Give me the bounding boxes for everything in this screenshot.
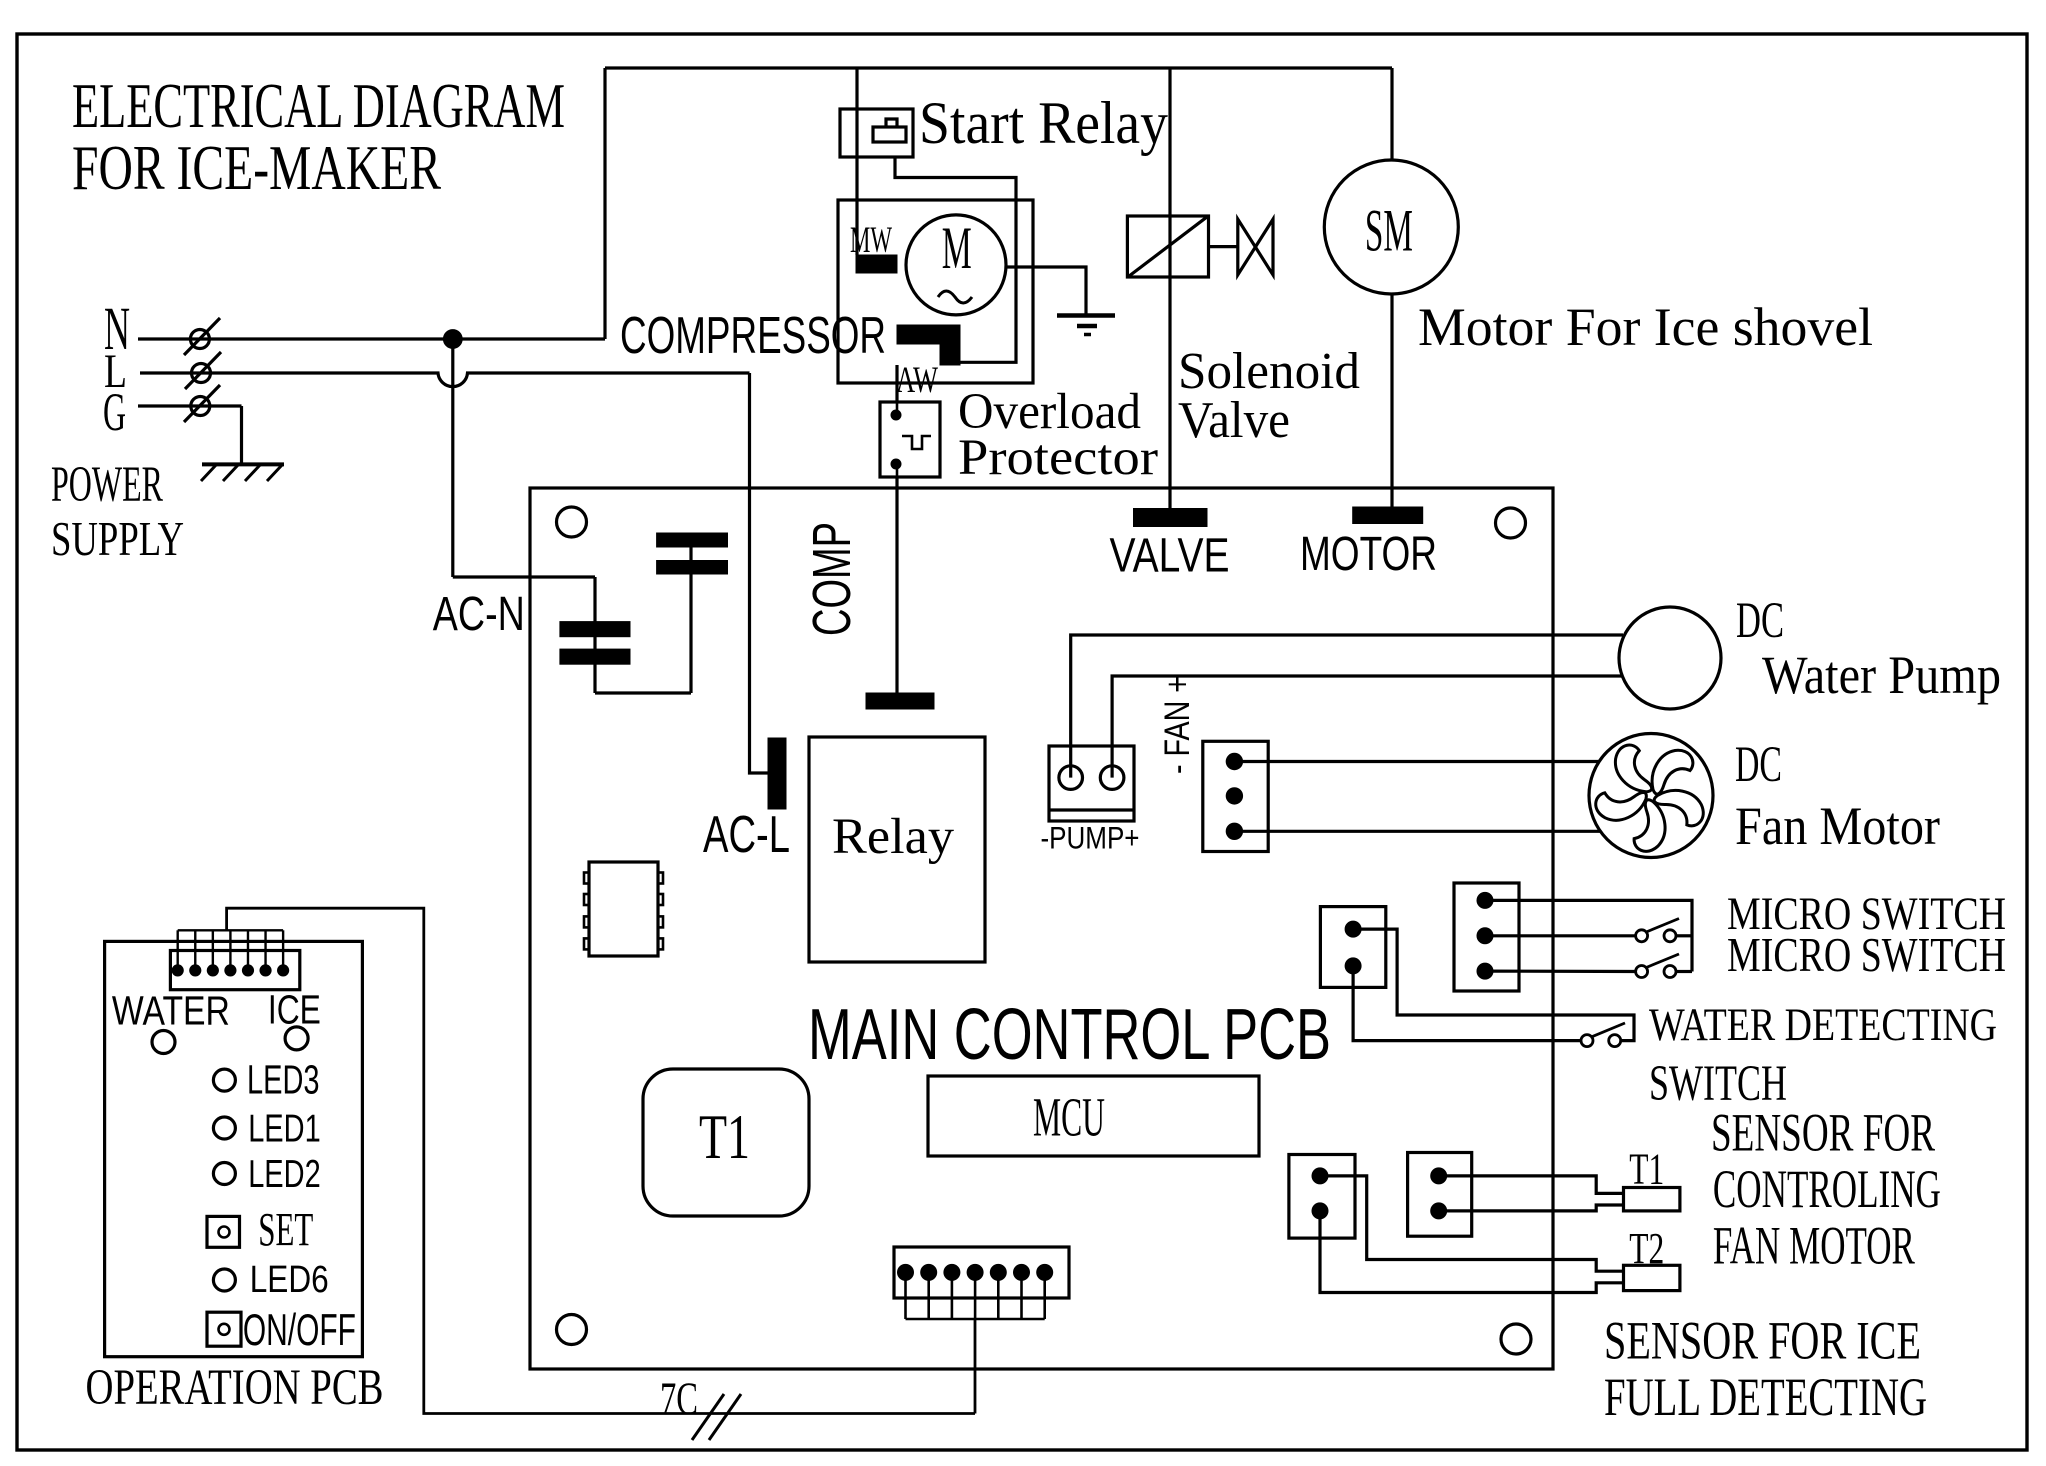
solenoid coil box with diagonal [1127,216,1208,277]
connector sensor B (2-pin) [1408,1153,1472,1237]
svg-text:MW: MW [850,220,892,261]
wire sensor A to T2 upper [1320,1176,1624,1271]
wire sensor B to T1 upper [1439,1176,1624,1194]
svg-text:AC-L: AC-L [703,806,790,864]
pad MOTOR [1353,507,1423,524]
ground symbol (earth with hatches) [202,462,284,466]
LED WATER circle [152,1031,175,1054]
svg-text:T1: T1 [699,1102,750,1172]
svg-text:T1: T1 [1629,1144,1664,1194]
svg-text:LED3: LED3 [247,1056,320,1102]
tilde under M [938,291,972,303]
wire fan terminal - [1234,830,1600,833]
connector FAN [1203,741,1268,851]
wire overload to COMP pad [895,477,898,693]
sensor T2 body [1624,1265,1680,1290]
svg-text:MOTOR: MOTOR [1300,528,1437,581]
svg-text:MAIN CONTROL PCB: MAIN CONTROL PCB [808,994,1331,1075]
terminal bar AW (L-shape) [897,325,960,344]
wire micro switch common [1485,900,1692,971]
connector water detecting (2-pin) [1320,907,1385,988]
svg-text:MICRO SWITCH: MICRO SWITCH [1727,927,2006,982]
svg-text:ELECTRICAL DIAGRAM: ELECTRICAL DIAGRAM [72,71,565,141]
wire SM to MOTOR pad [1390,294,1393,507]
mounting hole top-left [557,507,587,537]
transformer T1 box [643,1069,809,1216]
wire AC-L drop from L line [750,373,769,773]
MCU box [928,1076,1259,1156]
LED3 circle [213,1069,235,1091]
wire AW down to overload protector [895,365,898,402]
junction dot on N line [443,330,462,349]
relay box [809,737,985,962]
svg-text:AC-N: AC-N [433,588,525,641]
water detecting switch contacts and lever [1581,1035,1593,1047]
water pump circle [1619,607,1721,709]
svg-text:Protector: Protector [958,429,1158,485]
terminal bar MW [856,255,897,273]
svg-text:COMPRESSOR: COMPRESSOR [620,307,886,365]
wire solenoid to VALVE pad [1168,277,1171,509]
wires 7-pin connector stubs [904,1272,907,1319]
cable slash marks [692,1394,724,1440]
svg-text:Motor For Ice shovel: Motor For Ice shovel [1418,297,1873,357]
7-pin connector J1 [894,1247,1069,1298]
svg-text:Water Pump: Water Pump [1762,645,2001,705]
ground symbol at compressor [1057,313,1115,318]
terminal circle-slash L [192,364,211,383]
wire water switch lower [1353,966,1581,1041]
main control PCB board outline [530,488,1553,1369]
svg-text:FOR ICE-MAKER: FOR ICE-MAKER [72,133,441,203]
wire left drop of top bus [603,68,606,339]
wire start-relay drop [855,68,858,255]
button SET [207,1216,240,1247]
motor SM circle [1324,160,1458,294]
fan motor circle with blades [1589,734,1713,858]
svg-text:Valve: Valve [1178,391,1290,449]
wire jumper riser [689,547,692,693]
wire top bus [605,66,1392,69]
LED6 circle [213,1269,235,1291]
svg-text:- FAN +: - FAN + [1158,676,1197,774]
mounting hole bottom-left [557,1315,587,1345]
micro switch 1 contacts and lever [1636,930,1648,942]
wire micro switch 1 [1485,934,1636,937]
svg-text:COMP: COMP [802,522,862,636]
micro switch 2 contacts and lever [1636,966,1648,978]
svg-text:M: M [942,215,972,281]
svg-text:CONTROLING: CONTROLING [1713,1159,1941,1219]
connector PUMP [1049,746,1134,821]
operation PCB outline [105,941,363,1356]
wire AC-N jog into PCB [453,575,595,578]
start relay box [840,109,913,157]
svg-text:SUPPLY: SUPPLY [51,511,184,566]
wire L line with hop [140,373,750,387]
start relay contact bar [873,127,906,142]
wire water switch upper [1353,929,1634,1041]
svg-text:SENSOR FOR: SENSOR FOR [1711,1103,1935,1163]
LED ICE circle [285,1027,308,1050]
svg-text:LED6: LED6 [250,1258,329,1300]
wire micro switch 2 [1485,969,1636,973]
svg-text:LED2: LED2 [248,1153,321,1196]
pad VALVE [1134,509,1208,527]
svg-text:SM: SM [1365,197,1413,263]
svg-text:DC: DC [1736,592,1784,648]
wire 7C bus center drop [974,1319,977,1414]
wire jumper bottom link [595,691,691,694]
overload protector box [880,402,940,477]
svg-text:T2: T2 [1629,1223,1664,1273]
terminal circle-slash N [190,330,209,349]
svg-text:-PUMP+: -PUMP+ [1041,820,1140,856]
svg-text:POWER: POWER [51,456,163,512]
jumper bars pair 2 [560,622,630,637]
terminal circle-slash G [191,397,210,416]
svg-text:SENSOR FOR ICE: SENSOR FOR ICE [1604,1311,1921,1371]
svg-text:G: G [103,382,126,442]
connector sensor A (2-pin) [1289,1155,1355,1239]
svg-text:FULL DETECTING: FULL DETECTING [1604,1367,1927,1427]
svg-text:WATER DETECTING: WATER DETECTING [1649,999,1997,1050]
svg-text:7C: 7C [660,1373,698,1424]
compressor box [838,200,1033,383]
LED1 circle [213,1117,235,1139]
wire operation PCB to main PCB (7C cable) [227,908,975,1413]
svg-text:AW: AW [896,359,938,400]
svg-text:Start Relay: Start Relay [919,90,1168,156]
connector micro switches (3-pin) [1454,883,1519,991]
wire coil to valve symbol [1209,245,1238,248]
IC chip U1 [589,862,658,956]
wire sensor B to T1 lower [1439,1205,1624,1211]
svg-text:OPERATION PCB: OPERATION PCB [86,1359,384,1415]
button ON/OFF [207,1312,241,1346]
motor M circle [906,215,1006,315]
wire N line [138,337,605,340]
jumper bars pair 1 [657,533,728,547]
pad COMP [866,693,934,709]
wire G line [138,404,242,407]
wire fan terminal + [1234,760,1600,763]
terminal bar AC-L [768,738,786,809]
svg-text:LED1: LED1 [248,1108,321,1151]
valve bowtie symbol [1238,219,1256,275]
svg-text:SET: SET [258,1204,313,1257]
svg-text:DC: DC [1735,736,1782,792]
LED2 circle [213,1163,235,1185]
wire pump terminal 1 [1071,635,1623,778]
svg-text:WATER: WATER [112,988,230,1034]
mounting hole top-right [1496,508,1526,538]
wire SM drop [1390,68,1393,161]
wire G drop to earth [240,406,243,464]
wire M to ground [1006,267,1086,316]
wire solenoid drop upper [1168,68,1171,277]
wire start relay to compressor inner loop [895,157,1016,362]
svg-text:MCU: MCU [1033,1087,1105,1148]
svg-text:Fan Motor: Fan Motor [1735,796,1940,856]
wire N junction drop [451,339,454,577]
wire sensor A to T2 lower [1320,1211,1624,1293]
wire pump terminal 2 [1112,676,1622,778]
svg-text:VALVE: VALVE [1110,530,1230,583]
wires operation connector stubs [176,930,178,970]
svg-text:FAN MOTOR: FAN MOTOR [1713,1215,1915,1275]
mounting hole bottom-right [1501,1324,1531,1354]
sensor T1 body [1624,1188,1680,1211]
7-pin connector on operation PCB [170,951,299,990]
svg-text:Relay: Relay [832,808,955,864]
svg-text:ON/OFF: ON/OFF [243,1304,356,1355]
wire AC-N vertical through jumper [593,577,596,693]
